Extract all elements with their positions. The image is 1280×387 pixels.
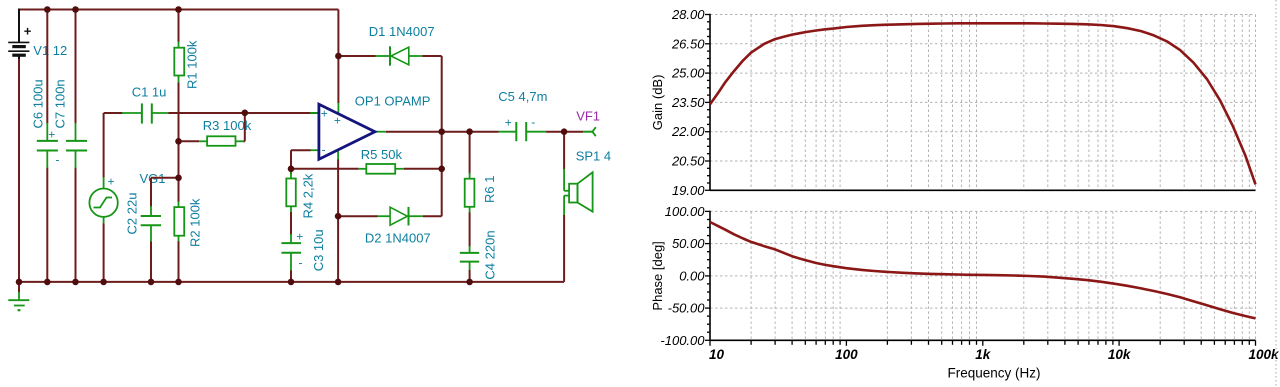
svg-text:-50.00: -50.00 [668, 301, 706, 316]
capacitor C4 [460, 246, 479, 271]
svg-text:C7 100n: C7 100n [53, 79, 68, 128]
wire R6 to C4 [469, 212, 471, 246]
resistor R6 [465, 173, 475, 213]
capacitor C1 [122, 103, 168, 123]
wire battery top lead [18, 9, 20, 43]
wire R2 branch [178, 178, 180, 202]
svg-text:-: - [322, 142, 326, 156]
wire C2 bottom [150, 242, 152, 282]
svg-text:SP1 4: SP1 4 [576, 149, 611, 164]
generator VG1 [89, 174, 117, 224]
wire R1 branch [178, 10, 180, 43]
svg-text:22.00: 22.00 [671, 124, 705, 139]
svg-text:10k: 10k [1108, 347, 1132, 362]
wire R2 bottom [178, 241, 180, 282]
svg-text:28.00: 28.00 [671, 7, 705, 22]
wire R6 branch [469, 132, 471, 174]
svg-text:100k: 100k [1248, 347, 1280, 362]
svg-text:Frequency (Hz): Frequency (Hz) [947, 366, 1040, 381]
window edge dotted line [1275, 0, 1277, 387]
wire top rail V+ [19, 9, 338, 11]
wire to speaker [563, 132, 565, 170]
svg-text:50.00: 50.00 [672, 236, 705, 251]
wire bottom ground rail [19, 281, 564, 283]
wire V- pin down to D2 node [337, 160, 339, 217]
op-amp OP1 [310, 102, 386, 160]
gain plot gridlines [710, 15, 1256, 191]
svg-text:C6 100u: C6 100u [31, 79, 46, 128]
wire right feedback bus [441, 56, 443, 216]
svg-text:10: 10 [709, 347, 725, 362]
svg-text:R6 1: R6 1 [482, 176, 497, 203]
svg-text:+: + [48, 127, 55, 141]
wire VG1 to C1 [103, 113, 105, 178]
resistor R3 [179, 136, 244, 146]
diode D2 1N4007 [338, 207, 442, 226]
phase curve [710, 222, 1256, 318]
svg-text:R1 100k: R1 100k [185, 40, 200, 89]
svg-text:Gain (dB): Gain (dB) [650, 75, 665, 131]
resistor R1 [174, 42, 184, 84]
svg-text:1k: 1k [975, 347, 992, 362]
svg-text:R4 2,2k: R4 2,2k [301, 173, 316, 218]
svg-text:Phase [deg]: Phase [deg] [650, 241, 665, 310]
capacitor C7 [66, 123, 87, 168]
svg-text:20.50: 20.50 [671, 154, 705, 169]
wire C2 link [151, 177, 179, 179]
svg-text:23.50: 23.50 [671, 95, 705, 110]
battery V1 [8, 23, 32, 70]
gain y axis labels [671, 7, 705, 198]
voltage probe VF1 [583, 127, 596, 136]
svg-text:+: + [24, 23, 32, 38]
svg-text:100: 100 [835, 347, 858, 362]
svg-text:R5 50k: R5 50k [361, 147, 403, 162]
resistor R2 [174, 201, 184, 241]
svg-text:+: + [108, 174, 115, 188]
svg-text:D2 1N4007: D2 1N4007 [365, 230, 431, 245]
svg-text:-: - [299, 255, 303, 269]
svg-text:-: - [531, 115, 535, 129]
svg-text:OP1 OPAMP: OP1 OPAMP [355, 94, 431, 109]
svg-text:C2 22u: C2 22u [125, 193, 140, 235]
wire C6 branch [46, 10, 48, 124]
wire VG1 bottom [103, 224, 105, 282]
svg-text:R2 100k: R2 100k [188, 198, 203, 247]
wire V+ pin to D1 node [337, 10, 339, 104]
svg-text:C3 10u: C3 10u [311, 229, 326, 271]
gain plot axes [710, 14, 1256, 191]
wire C5 to speaker node [546, 131, 583, 133]
frequency x axis labels [709, 347, 1280, 362]
wire C1 to op-amp +in [168, 112, 319, 114]
phase plot gridlines [710, 211, 1256, 340]
wire battery minus to bottom rail [18, 59, 20, 282]
svg-text:V1 12: V1 12 [33, 43, 67, 58]
wire R1 to node [178, 83, 180, 178]
svg-text:D1 1N4007: D1 1N4007 [369, 24, 435, 39]
speaker SP1 [564, 169, 593, 216]
svg-text:+: + [321, 107, 328, 121]
phase plot axes [710, 211, 1256, 341]
wire R3 up to +in wire [244, 112, 246, 142]
capacitor C6 [37, 123, 60, 168]
wire -in to feedback node [291, 149, 311, 151]
ground [8, 282, 29, 310]
resistor R4 [286, 169, 296, 213]
wire speaker bottom [563, 215, 565, 282]
wire R4 to C3 [290, 212, 292, 235]
svg-text:100.00: 100.00 [665, 204, 706, 219]
svg-text:19.00: 19.00 [672, 183, 705, 198]
svg-text:+: + [505, 116, 512, 130]
svg-text:26.50: 26.50 [671, 36, 705, 51]
wire C4 bottom [469, 270, 471, 282]
svg-text:-: - [56, 153, 60, 167]
wire op-amp output [386, 131, 499, 133]
svg-text:+: + [334, 113, 341, 127]
wire C7 branch [75, 10, 77, 124]
svg-text:25.00: 25.00 [671, 66, 705, 81]
svg-text:C5 4,7m: C5 4,7m [498, 89, 547, 104]
diode D1 1N4007 [338, 46, 441, 65]
capacitor C3 [281, 230, 303, 271]
svg-text:C1 1u: C1 1u [132, 85, 167, 100]
resistor R5 [291, 164, 442, 174]
svg-text:VF1: VF1 [576, 109, 600, 124]
svg-text:0.00: 0.00 [679, 268, 705, 283]
phase y axis labels [660, 204, 705, 348]
svg-text:+: + [296, 230, 303, 244]
svg-text:C4 220n: C4 220n [482, 230, 497, 279]
capacitor C2 [141, 206, 161, 242]
svg-text:-100.00: -100.00 [660, 333, 705, 348]
gain curve [710, 23, 1256, 184]
capacitor C5 [499, 115, 547, 141]
wire C3 bottom [290, 271, 292, 282]
